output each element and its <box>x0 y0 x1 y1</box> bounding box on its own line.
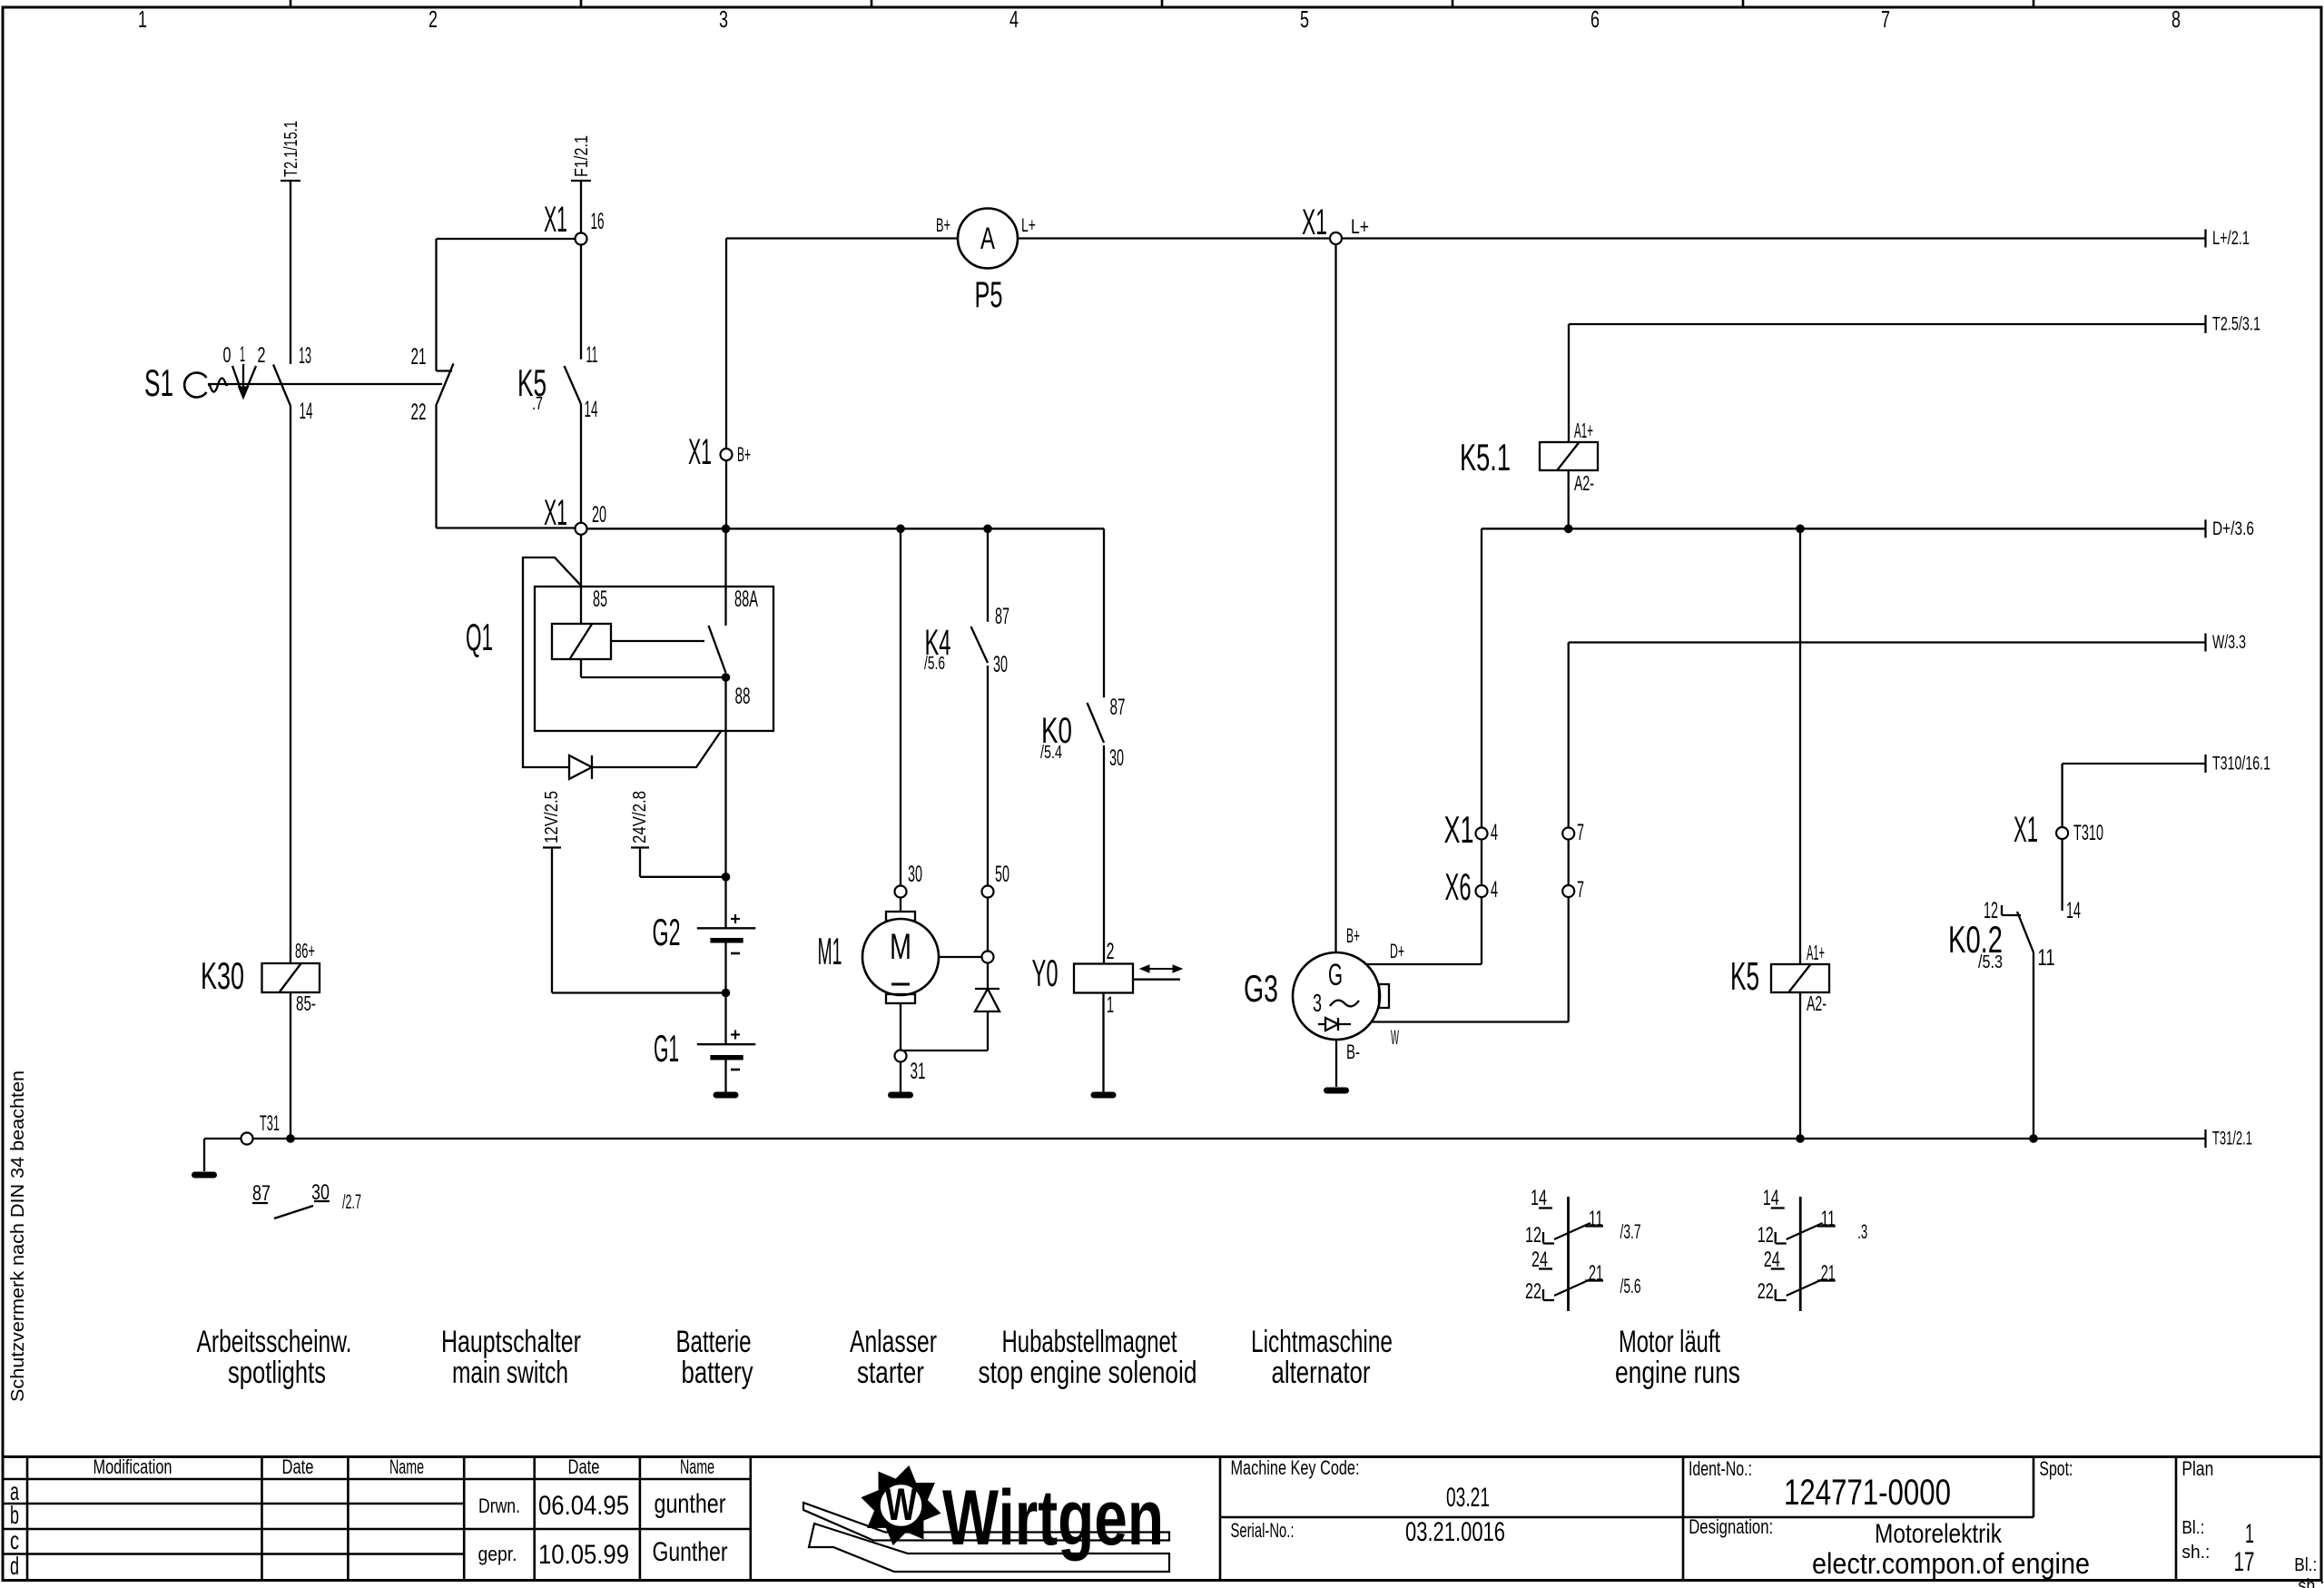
svg-text:F1/2.1: F1/2.1 <box>572 135 592 177</box>
svg-text:sh.:: sh.: <box>2298 1576 2324 1588</box>
svg-text:alternator: alternator <box>1272 1356 1371 1390</box>
svg-text:/2.7: /2.7 <box>342 1190 361 1213</box>
svg-text:17: 17 <box>2234 1547 2255 1577</box>
svg-text:W: W <box>1391 1026 1399 1049</box>
svg-text:Motor läuft: Motor läuft <box>1619 1325 1720 1359</box>
svg-text:main switch: main switch <box>452 1356 568 1390</box>
svg-text:Drwn.: Drwn. <box>478 1494 520 1517</box>
svg-text:4: 4 <box>1491 820 1498 845</box>
svg-text:A2-: A2- <box>1807 991 1827 1015</box>
svg-text:22: 22 <box>1525 1279 1541 1304</box>
svg-text:4: 4 <box>1491 877 1498 902</box>
svg-text:11: 11 <box>1821 1207 1836 1231</box>
svg-text:K5: K5 <box>1730 954 1759 999</box>
svg-text:K5.1: K5.1 <box>1460 436 1511 478</box>
svg-text:Gunther: Gunther <box>653 1537 728 1567</box>
svg-text:06.04.95: 06.04.95 <box>538 1491 629 1521</box>
svg-text:M: M <box>890 927 911 967</box>
svg-text:W/3.3: W/3.3 <box>2212 632 2246 653</box>
svg-text:G2: G2 <box>653 911 681 953</box>
svg-text:12: 12 <box>1758 1223 1774 1248</box>
svg-text:A1+: A1+ <box>1574 419 1593 442</box>
svg-text:3: 3 <box>1313 989 1322 1017</box>
svg-text:X1: X1 <box>544 493 567 533</box>
svg-text:85: 85 <box>593 587 607 612</box>
svg-text:1: 1 <box>2245 1519 2254 1549</box>
svg-text:11: 11 <box>2038 945 2055 971</box>
svg-text:22: 22 <box>1758 1279 1774 1304</box>
svg-text:22: 22 <box>411 399 427 425</box>
svg-text:Batterie: Batterie <box>676 1325 752 1359</box>
svg-text:Anlasser: Anlasser <box>850 1325 937 1359</box>
svg-text:X1: X1 <box>688 432 712 472</box>
svg-text:Plan: Plan <box>2181 1457 2213 1480</box>
svg-text:X6: X6 <box>1445 865 1472 908</box>
svg-text:/5.4: /5.4 <box>1040 743 1062 763</box>
svg-text:spotlights: spotlights <box>228 1356 326 1390</box>
svg-text:2: 2 <box>258 343 266 368</box>
svg-text:T2.5/3.1: T2.5/3.1 <box>2212 314 2260 335</box>
svg-text:Date: Date <box>282 1455 314 1478</box>
svg-text:14: 14 <box>300 399 313 424</box>
svg-text:Motorelektrik: Motorelektrik <box>1875 1519 2003 1549</box>
svg-text:88: 88 <box>735 684 751 709</box>
svg-text:A: A <box>980 222 995 256</box>
svg-text:50: 50 <box>995 862 1009 887</box>
svg-text:Y0: Y0 <box>1032 952 1059 994</box>
svg-text:B+: B+ <box>1346 924 1360 947</box>
svg-text:21: 21 <box>1589 1261 1603 1286</box>
svg-text:Hauptschalter: Hauptschalter <box>441 1325 581 1359</box>
svg-text:X1: X1 <box>1302 202 1327 242</box>
svg-text:14: 14 <box>585 397 598 422</box>
svg-text:A2-: A2- <box>1574 471 1594 495</box>
svg-text:14: 14 <box>1763 1186 1779 1210</box>
svg-text:b: b <box>10 1501 19 1529</box>
svg-text:sh.:: sh.: <box>2181 1543 2210 1563</box>
svg-text:gepr.: gepr. <box>478 1543 517 1565</box>
svg-text:0: 0 <box>223 343 231 368</box>
svg-text:G: G <box>1328 958 1343 992</box>
svg-text:2: 2 <box>428 5 438 33</box>
svg-text:T310/16.1: T310/16.1 <box>2212 754 2270 774</box>
svg-text:stop engine solenoid: stop engine solenoid <box>979 1356 1197 1390</box>
svg-text:L+/2.1: L+/2.1 <box>2212 228 2250 249</box>
svg-text:Date: Date <box>568 1455 600 1478</box>
svg-text:Lichtmaschine: Lichtmaschine <box>1251 1325 1393 1359</box>
svg-text:M1: M1 <box>818 930 842 972</box>
svg-text:87: 87 <box>252 1181 271 1206</box>
svg-text:30: 30 <box>908 862 922 887</box>
svg-text:21: 21 <box>1821 1261 1836 1286</box>
svg-text:1: 1 <box>1107 992 1114 1018</box>
svg-text:/5.6: /5.6 <box>924 654 945 674</box>
svg-text:30: 30 <box>311 1180 330 1205</box>
svg-text:21: 21 <box>411 344 427 370</box>
svg-text:88A: 88A <box>734 587 758 612</box>
svg-text:battery: battery <box>682 1356 753 1390</box>
svg-text:7: 7 <box>1881 5 1890 33</box>
svg-text:30: 30 <box>993 652 1008 677</box>
svg-text:electr.compon.of engine: electr.compon.of engine <box>1812 1547 2090 1580</box>
svg-text:87: 87 <box>1110 695 1126 720</box>
svg-text:Spot:: Spot: <box>2039 1457 2073 1480</box>
svg-text:B+: B+ <box>737 443 751 466</box>
svg-text:Schutzvermerk nach DIN 34 beac: Schutzvermerk nach DIN 34 beachten <box>8 1070 28 1402</box>
svg-text:03.21.0016: 03.21.0016 <box>1405 1517 1505 1547</box>
svg-text:Bl.:: Bl.: <box>2294 1555 2317 1575</box>
svg-text:/5.6: /5.6 <box>1620 1275 1641 1297</box>
svg-text:86+: 86+ <box>295 939 315 962</box>
svg-text:14: 14 <box>1531 1186 1547 1210</box>
svg-text:20: 20 <box>592 502 606 528</box>
svg-text:Ident-No.:: Ident-No.: <box>1689 1457 1752 1480</box>
svg-text:16: 16 <box>591 209 605 234</box>
svg-text:12V/2.5: 12V/2.5 <box>542 791 562 843</box>
svg-text:T2.1/15.1: T2.1/15.1 <box>281 121 301 177</box>
svg-text:124771-0000: 124771-0000 <box>1784 1473 1951 1513</box>
svg-text:d: d <box>10 1552 19 1580</box>
svg-text:6: 6 <box>1590 5 1600 33</box>
svg-text:Serial-No.:: Serial-No.: <box>1231 1519 1295 1542</box>
svg-text:Designation:: Designation: <box>1689 1515 1773 1538</box>
svg-text:03.21: 03.21 <box>1446 1483 1490 1513</box>
svg-text:L+: L+ <box>1351 215 1369 238</box>
svg-text:Hubabstellmagnet: Hubabstellmagnet <box>1002 1325 1177 1359</box>
svg-text:11: 11 <box>586 342 598 368</box>
svg-text:G1: G1 <box>654 1027 679 1070</box>
svg-text:Name: Name <box>680 1455 714 1478</box>
svg-text:1: 1 <box>138 5 147 33</box>
svg-text:14: 14 <box>2066 898 2081 923</box>
svg-text:5: 5 <box>1300 5 1309 33</box>
svg-text:c: c <box>10 1526 19 1554</box>
svg-text:13: 13 <box>299 343 311 369</box>
svg-text:D+: D+ <box>1390 940 1404 962</box>
svg-text:X1: X1 <box>544 200 567 240</box>
svg-text:8: 8 <box>2171 5 2181 33</box>
svg-text:Q1: Q1 <box>466 616 493 658</box>
svg-text:A1+: A1+ <box>1807 941 1825 964</box>
svg-text:D+/3.6: D+/3.6 <box>2212 518 2254 539</box>
svg-text:S1: S1 <box>144 361 173 404</box>
svg-text:B+: B+ <box>936 215 950 236</box>
svg-text:T31: T31 <box>260 1111 280 1136</box>
svg-text:L+: L+ <box>1021 215 1036 236</box>
svg-text:2: 2 <box>1107 939 1115 964</box>
svg-text:B-: B- <box>1346 1041 1360 1063</box>
svg-text:12: 12 <box>1525 1223 1541 1248</box>
svg-text:.7: .7 <box>532 394 543 414</box>
svg-text:4: 4 <box>1009 5 1019 33</box>
svg-text:Name: Name <box>389 1455 424 1478</box>
svg-text:engine runs: engine runs <box>1615 1356 1740 1390</box>
svg-text:X1: X1 <box>1444 808 1474 851</box>
svg-text:Machine Key Code:: Machine Key Code: <box>1231 1456 1360 1479</box>
svg-text:Wirtgen: Wirtgen <box>942 1475 1164 1562</box>
svg-text:X1: X1 <box>2014 810 2038 850</box>
svg-text:starter: starter <box>857 1356 924 1390</box>
svg-text:K30: K30 <box>201 954 244 997</box>
svg-text:7: 7 <box>1577 877 1584 902</box>
svg-text:/3.7: /3.7 <box>1620 1220 1641 1243</box>
svg-text:87: 87 <box>995 604 1009 629</box>
svg-text:31: 31 <box>911 1059 926 1084</box>
svg-text:Bl.:: Bl.: <box>2181 1518 2204 1538</box>
svg-text:7: 7 <box>1577 820 1584 845</box>
svg-text:10.05.99: 10.05.99 <box>538 1540 629 1570</box>
svg-text:/5.3: /5.3 <box>1978 952 2003 972</box>
svg-text:T310: T310 <box>2073 821 2103 845</box>
svg-text:P5: P5 <box>975 275 1003 315</box>
svg-text:3: 3 <box>719 5 728 33</box>
svg-text:G3: G3 <box>1244 967 1278 1010</box>
svg-text:gunther: gunther <box>655 1489 726 1519</box>
svg-text:30: 30 <box>1109 745 1124 771</box>
svg-text:85-: 85- <box>296 991 316 1015</box>
svg-text:Modification: Modification <box>94 1455 172 1478</box>
svg-text:24V/2.8: 24V/2.8 <box>630 791 650 843</box>
svg-text:T31/2.1: T31/2.1 <box>2212 1129 2252 1149</box>
svg-text:.3: .3 <box>1857 1220 1867 1243</box>
svg-text:1: 1 <box>240 342 245 367</box>
svg-text:W: W <box>885 1479 918 1530</box>
svg-text:11: 11 <box>1589 1207 1603 1231</box>
svg-text:Arbeitsscheinw.: Arbeitsscheinw. <box>197 1325 352 1359</box>
